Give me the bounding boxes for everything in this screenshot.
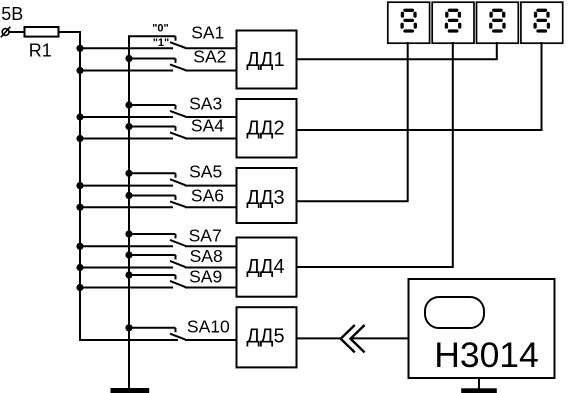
wire bus1 vertical (+5V rail) — [80, 31, 178, 340]
wire bus2 vertical (ground rail) — [129, 36, 176, 389]
switch SA7 — [76, 230, 237, 250]
svg-text:ДД3: ДД3 — [246, 187, 284, 209]
ground (left, bus2) — [111, 388, 150, 393]
switch SA6 — [76, 192, 237, 211]
svg-text:SA2: SA2 — [193, 46, 226, 66]
seven-segment digit 8 (cell 3) — [491, 10, 504, 31]
decoder DD2 — [237, 99, 297, 158]
connector chevron (cable link) — [341, 325, 365, 352]
terminal (input socket) — [1, 27, 11, 38]
digit cell 3 — [477, 2, 519, 43]
svg-text:5В: 5В — [1, 4, 23, 24]
wire DD5 output to H3014 — [297, 337, 341, 339]
digit cell 2 — [432, 2, 474, 43]
svg-text:ДД5: ДД5 — [246, 326, 284, 348]
svg-text:Н3014: Н3014 — [434, 335, 539, 375]
svg-text:SA8: SA8 — [190, 246, 223, 266]
svg-text:SA5: SA5 — [189, 162, 222, 182]
wire DD3 output to digit 1 — [297, 42, 408, 201]
svg-text:SA7: SA7 — [189, 226, 222, 246]
wire terminal to R1 — [9, 31, 25, 33]
svg-text:SA9: SA9 — [189, 266, 222, 286]
switch SA10 — [125, 324, 237, 340]
svg-text:SA6: SA6 — [191, 185, 224, 205]
decoder DD1 — [237, 31, 297, 89]
decoder DD4 — [237, 238, 297, 297]
seven-segment digit 8 (cell 1) — [402, 10, 415, 31]
oscilloscope H3014 — [409, 279, 555, 378]
svg-text:"1": "1" — [153, 37, 170, 49]
svg-text:SA3: SA3 — [189, 94, 222, 114]
wire R1 to bus1 — [59, 31, 82, 33]
svg-text:SA10: SA10 — [187, 316, 230, 336]
switch SA1 — [76, 36, 237, 52]
switch SA8 — [76, 251, 237, 271]
resistor R1 — [25, 27, 59, 37]
svg-text:ДД4: ДД4 — [246, 256, 284, 278]
svg-text:ДД2: ДД2 — [246, 117, 284, 139]
seven-segment digit 8 (cell 2) — [446, 10, 459, 31]
digit cell 1 — [388, 2, 430, 43]
switch SA4 — [76, 123, 237, 142]
switch SA3 — [76, 101, 237, 120]
switch SA5 — [76, 170, 237, 190]
wire DD1 output to digit 3 — [297, 42, 497, 59]
decoder DD5 — [237, 307, 297, 367]
svg-text:R1: R1 — [29, 41, 52, 61]
display unit (4-digit 7-segment indicator) — [388, 2, 563, 43]
decoder DD3 — [237, 168, 297, 223]
svg-text:"0": "0" — [152, 22, 169, 34]
svg-text:ДД1: ДД1 — [246, 49, 284, 71]
wire DD2 output to digit 4 — [297, 42, 542, 130]
switch SA2 — [76, 55, 237, 74]
ground (right, H3014) — [461, 388, 497, 393]
svg-text:SA4: SA4 — [191, 116, 224, 136]
wire H3014 to ground — [478, 378, 480, 389]
seven-segment digit 8 (cell 4) — [535, 10, 548, 31]
switch SA9 — [76, 271, 237, 291]
svg-text:SA1: SA1 — [191, 23, 224, 43]
digit cell 4 — [521, 2, 563, 43]
wire DD4 output to digit 2 — [297, 42, 453, 267]
